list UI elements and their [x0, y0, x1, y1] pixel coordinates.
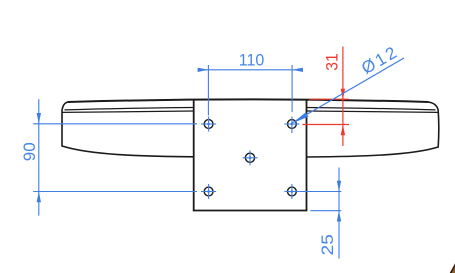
hole top-right center mark [284, 117, 299, 134]
leader arrow at hole [292, 112, 308, 123]
dim 25 extension line top [300, 191, 342, 193]
svg-text:31: 31 [322, 53, 341, 71]
photo corner fragment bottom-right [450, 264, 455, 273]
center plate bottom edge [193, 210, 308, 212]
hole center ring [245, 153, 254, 162]
dim 110 extension line left [207, 65, 209, 116]
svg-text:25: 25 [318, 234, 337, 256]
dim 90 dimension line [38, 99, 40, 215]
hole bottom-left ring [204, 187, 213, 196]
center plate right edge [306, 100, 308, 211]
left wing rolled edge upper line [65, 108, 194, 110]
dim 25 dimension line [338, 168, 340, 259]
dim 90 arrow bottom [37, 192, 41, 203]
dim 25 arrow top [337, 181, 341, 192]
svg-text:90: 90 [20, 142, 39, 161]
dim 90 arrow top [37, 113, 41, 124]
dim 110 extension line right [291, 65, 293, 112]
dim 31 extension line top (red) [309, 98, 349, 100]
dim 110 arrow left [198, 68, 209, 72]
leader line for diameter 12 [292, 58, 404, 123]
dim 90 extension line bottom [33, 191, 197, 193]
dim 25 arrow bottom [337, 211, 341, 222]
hole bottom-right ring [288, 187, 297, 196]
dim 25 extension line bottom [310, 210, 341, 212]
right wing outline [306, 102, 438, 157]
svg-text:110: 110 [239, 50, 265, 69]
dim 31 extension line bottom (red) [302, 124, 349, 126]
hole bottom-left center mark [201, 184, 216, 199]
left wing rolled edge lower line [62, 111, 193, 112]
right wing rolled edge lower line [306, 111, 437, 112]
dim 31 arrow bottom (red) [341, 125, 345, 136]
center plate left edge [193, 100, 195, 211]
hole bottom-right center mark [284, 184, 299, 199]
left wing outline [62, 102, 194, 157]
dim 90 extension line top [33, 123, 197, 125]
hole top-right ring [288, 120, 297, 129]
right wing rolled edge upper line [306, 108, 435, 110]
hole center center mark [243, 150, 258, 165]
dim 31 arrow top (red) [341, 89, 345, 100]
dim 31 dimension line (red) [342, 47, 344, 147]
part top edge arc [68, 99, 429, 102]
hole top-left center mark [201, 117, 216, 132]
dim 110 dimension line [198, 69, 303, 71]
hole top-left ring [204, 120, 213, 129]
dim 110 arrow right [292, 68, 303, 72]
